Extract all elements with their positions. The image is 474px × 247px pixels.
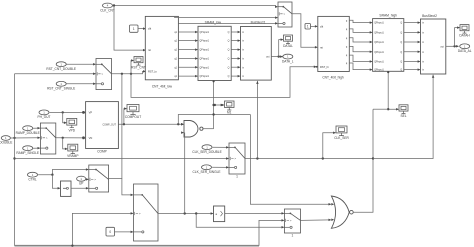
junction SW1 out branch down [121,73,123,75]
memory U6 SRAM_high [373,19,404,72]
wire bottom line up to SW5 control [72,213,132,245]
wire reset reroute to U5 RST_hi [131,67,316,98]
svg-text:RAMP_DOUBLE: RAMP_DOUBLE [16,131,40,135]
wire PH_OUT to COMP VP [50,111,85,113]
svg-text:>: > [139,212,141,216]
counter U5 CNT_4bit_high [318,16,350,71]
svg-text:QPinput1: QPinput1 [374,51,384,54]
wire to SW6 bottom input [196,214,283,228]
scope RST_CNT [131,57,146,70]
svg-text:QPinput1: QPinput1 [200,49,210,52]
wire DOUBLE long line to SW3 control [15,158,229,160]
svg-text:RST_CNT_SINGLE: RST_CNT_SINGLE [47,87,75,91]
wire branch to U7 sel input [373,75,433,159]
wire SW1 out to U1 RST_lo [112,71,145,73]
junction at bottom line [71,245,73,247]
junction COMP out second branch [177,123,179,125]
svg-text:RAMP_SINGLE: RAMP_SINGLE [16,151,39,155]
wire bottom line up to SW6 control [259,220,284,245]
wire U6 sel out down to junction [388,71,398,109]
junction PH_OUT tap VPD [62,111,64,113]
constant K3 ground [106,227,115,236]
wire K1 to U1 clk [138,28,145,30]
svg-text:UP: UP [79,182,83,186]
svg-text:QPinput1: QPinput1 [200,31,210,34]
wire RST_CNT_SINGLE to SW1 [66,83,95,85]
delay U16 [214,206,225,222]
wire COMP out riser to cross line [178,115,250,125]
node DOUBLE input port [0,136,12,145]
junction SEL scope [387,108,389,110]
node UP input port [77,176,86,185]
svg-text:>: > [101,72,103,76]
svg-text:CNT_4bit_high: CNT_4bit_high [322,75,343,79]
nor gate G3 [331,196,353,228]
scope VRAMP [67,144,78,158]
svg-text:DOUBLE: DOUBLE [0,141,12,145]
wire U1 top output B to SW0 bottom [178,22,277,24]
wire cross line down to NOR G3 input [250,115,330,205]
svg-text:RST_hi: RST_hi [320,65,329,69]
wire DOUBLE vertical trunk [14,74,16,246]
svg-text:CLK_CNT: CLK_CNT [100,8,115,12]
svg-text:>: > [283,12,285,16]
svg-text:1: 1 [236,174,238,178]
nand gate G1 [184,121,203,138]
svg-text:QPinput1: QPinput1 [374,41,384,44]
wire bus U5 to U6 SRAM_high [349,20,372,22]
wire CLK_SER_DOUBLE to SW3 [213,146,229,148]
wire DOUBLE bottom feedback line [15,245,260,247]
wire U1 top output A to SW0 middle [175,16,278,18]
svg-text:Q: Q [228,50,230,52]
svg-text:COMPOUT: COMPOUT [125,115,141,119]
switch SW0 top data selector [278,2,292,27]
wire reset down to SW4 output join and SW5 [109,74,122,179]
node DATA_AL output port [458,44,472,53]
switch SW1 reset selector [96,59,112,90]
scope CLK_SER [334,126,349,140]
junction DOUBLE at long line [13,157,15,159]
svg-text:QPinput1: QPinput1 [200,66,210,69]
svg-text:Q: Q [400,70,402,72]
svg-text:CLK_SER_DOUBLE: CLK_SER_DOUBLE [192,150,221,154]
svg-text:BusSlect2: BusSlect2 [422,14,437,18]
junction CLK_SER scope tap [322,157,324,159]
wire CLK_CNT to top switch SW0 [113,6,277,7]
wire DOUBLE to SW2 control [10,137,39,139]
node CLK_SER_SINGLE input port [193,165,221,174]
wire SW0 out to U5 rst [292,14,317,48]
wire COMP out to NAND G1 [118,123,183,125]
wire K3 to SW5 bottom [115,231,133,233]
wire bus U2 to U3 BusSlect1 [231,31,240,33]
svg-text:Q: Q [228,67,230,69]
svg-text:DATA_AL: DATA_AL [458,49,472,53]
svg-text:rst: rst [148,48,151,52]
svg-text:>: > [234,157,236,161]
svg-text:VP: VP [89,111,93,115]
svg-text:QPinput1: QPinput1 [200,58,210,61]
wire tap to scope VPD [63,112,66,122]
counter U1 CNT_4bit_low [145,16,178,79]
svg-text:QPinput1: QPinput1 [200,40,210,43]
node RAMP_DOUBLE input port [16,126,40,135]
svg-text:>: > [46,136,48,140]
svg-text:RST_CNT: RST_CNT [131,66,146,70]
svg-text:CLK_SER_SINGLE: CLK_SER_SINGLE [193,170,221,174]
scope M1 [225,101,235,115]
wire G2 out to SW4 bottom [71,187,88,189]
scope VPD [67,118,77,132]
node DATA_L output port [282,54,294,63]
scope SEL [399,105,408,118]
svg-text:QPinput1: QPinput1 [374,22,384,25]
svg-text:M1: M1 [227,111,232,115]
wire SW2 out to COMP VN [56,137,85,139]
svg-text:out: out [266,56,270,59]
constant K1 value 1 [130,25,139,32]
wire U2 sel output down to scope M1 [213,81,215,129]
wire U3 sel input from long line [256,81,258,159]
svg-text:out: out [440,45,444,48]
svg-text:Q: Q [228,32,230,34]
junction SW1 out branch to scope and RST_hi [130,73,132,75]
switch SW5 main phase selector [134,184,159,241]
logic not G2 [61,181,72,196]
mux U7 BusSlect2 [421,19,446,74]
switch SW2 ramp selector [40,123,55,154]
node PH_OUT input port [38,110,51,119]
node RST_CNT_DOUBLE input port [46,62,76,71]
svg-text:DATAL: DATAL [283,44,293,48]
svg-text:RST_lo: RST_lo [148,70,157,74]
node CLK_CNT input port [100,3,115,12]
node RST_CNT_SINGLE input port [47,81,75,90]
svg-text:RST_CNT_DOUBLE: RST_CNT_DOUBLE [46,67,76,71]
junction COMPOUT tap [123,123,125,125]
svg-text:COMP_OUT: COMP_OUT [102,124,116,127]
svg-text:BusSlect1: BusSlect1 [251,21,266,25]
comparator U10 COMP [86,102,119,149]
svg-text:>: > [94,178,96,182]
junction CLK_CNT branch [113,4,115,6]
node CTRL input port [28,172,38,181]
svg-text:CTRL: CTRL [28,178,37,182]
svg-text:DATA_L: DATA_L [282,59,294,63]
junction NAND feeder [184,212,186,214]
wire K2 to U5 clk [311,25,318,27]
constant K2 value 1 [305,24,311,30]
svg-text:Q: Q [400,62,402,64]
wire SW5 out line to delay U16 [158,213,213,215]
svg-text:QPinput1: QPinput1 [374,61,384,64]
wire U7 out to DATA_AL and DATAH [446,45,458,47]
wire DOUBLE to SW1 control [15,73,96,75]
svg-text:1: 1 [133,27,135,31]
scope DATAH [459,25,470,38]
svg-text:VRAMP: VRAMP [67,154,78,158]
junction at COMP VN [82,136,85,139]
wire junction to scope M1 [214,104,224,106]
svg-text:QPinput1: QPinput1 [374,69,384,72]
junction SEL feedback at long line [372,157,374,159]
wire G3 out up to BusSlect2 sel [353,109,373,212]
svg-text:DATAH: DATAH [459,34,470,38]
wire bus U1 to U2 SRAM_low [178,31,197,33]
wire CTRL to SW4 and NOT G2 [38,170,88,175]
svg-text:Q: Q [228,76,230,78]
wire CLK_CNT down to U1 rst [114,6,145,51]
switch SW6 gate selector [284,209,300,237]
memory U2 SRAM_low [198,26,231,80]
mux U3 BusSlect1 [241,27,272,81]
svg-text:Q: Q [400,33,402,35]
switch SW4 up control selector [89,165,109,192]
switch SW3 serial clock selector [229,143,245,178]
wire tap to scope COMPOUT [124,109,126,125]
svg-text:SEL: SEL [400,114,406,118]
svg-text:QPinput1: QPinput1 [374,32,384,35]
svg-text:1: 1 [307,25,309,29]
scope DATAL [283,35,293,48]
svg-text:SRAM_low: SRAM_low [205,21,222,25]
wire SW6 out to NOR G3 [301,219,331,222]
junction VRAMP tap [62,137,64,139]
svg-text:0: 0 [109,230,111,234]
junction at COMP VP [82,111,85,114]
svg-text:QPinput1: QPinput1 [200,75,210,78]
wire RAMP_DOUBLE to SW2 [33,127,40,129]
svg-text:Q: Q [400,23,402,25]
wire U3 out to DATA_L and DATAL [271,56,282,58]
wire CLK_SER_SINGLE to SW3 [212,166,228,168]
wire G1 output to junction column [203,128,214,130]
wire tap to scope CLK_SER [323,133,335,159]
svg-text:Q: Q [228,59,230,61]
svg-text:Q: Q [228,41,230,43]
node CLK_SER_DOUBLE input port [192,145,221,154]
wire U16 out to SW6 top [225,212,284,214]
wire RST_CNT_DOUBLE to SW1 [66,63,95,65]
svg-text:rst: rst [320,45,323,49]
svg-text:Q: Q [400,52,402,54]
junction SW6 bottom feeder [195,212,197,214]
wire UP to SW4 control [86,178,88,181]
wire up to G1 lower input [184,133,186,214]
svg-text:>: > [290,219,292,223]
svg-text:SRAM_high: SRAM_high [379,13,397,17]
scope COMPOUT [125,105,141,120]
wire to scope RST_CNT [131,61,133,74]
wire junction left to feedback column [373,108,388,110]
svg-text:COMP: COMP [97,149,107,153]
wire RAMP_SINGLE to SW2 [33,147,40,149]
svg-text:VN: VN [89,136,93,140]
junction BusSlect1 sel tap [256,157,258,159]
wire tap to scope VRAMP [63,138,67,149]
wire long line SW3 out to feedback column [245,158,373,160]
svg-text:VPD: VPD [69,128,76,132]
svg-text:1: 1 [292,233,294,237]
svg-text:CNT_4bit_low: CNT_4bit_low [152,85,173,89]
junction DOUBLE net [13,137,15,139]
wire bus U6 to U7 BusSlect2 [404,22,420,24]
svg-text:PH_OUT: PH_OUT [38,115,51,119]
svg-text:CLK_SER: CLK_SER [334,136,349,140]
node RAMP_SINGLE input port [16,146,39,155]
svg-text:Q: Q [400,42,402,44]
